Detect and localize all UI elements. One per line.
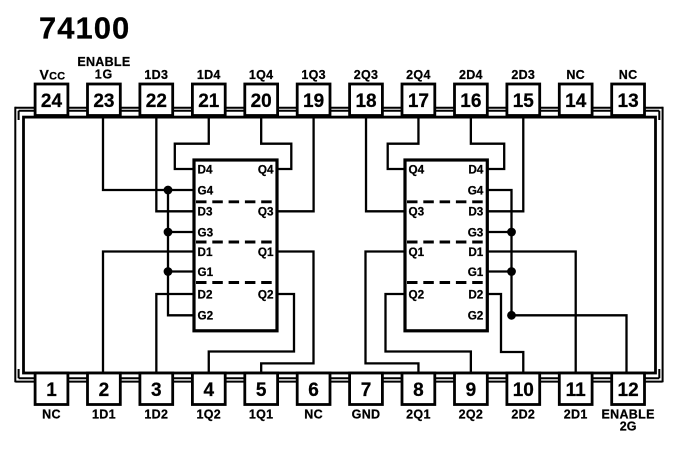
svg-text:1Q3: 1Q3 <box>301 68 326 82</box>
svg-text:D4: D4 <box>468 163 483 176</box>
svg-text:Q2: Q2 <box>258 288 274 301</box>
svg-text:G1: G1 <box>198 266 214 279</box>
svg-text:18: 18 <box>355 91 376 112</box>
svg-text:15: 15 <box>513 91 535 112</box>
svg-text:2Q1: 2Q1 <box>406 408 431 422</box>
svg-text:D4: D4 <box>198 163 213 176</box>
svg-text:Q3: Q3 <box>409 206 425 219</box>
svg-text:Q4: Q4 <box>409 163 425 176</box>
svg-text:D3: D3 <box>468 206 483 219</box>
svg-text:5: 5 <box>256 380 267 401</box>
svg-text:2Q3: 2Q3 <box>354 68 379 82</box>
svg-text:2D4: 2D4 <box>459 68 483 82</box>
svg-text:11: 11 <box>566 380 587 401</box>
svg-text:2D2: 2D2 <box>511 408 535 422</box>
svg-text:D1: D1 <box>468 246 483 259</box>
svg-text:Q1: Q1 <box>409 246 425 259</box>
svg-text:12: 12 <box>618 380 639 401</box>
svg-text:2Q4: 2Q4 <box>406 68 431 82</box>
svg-text:2D1: 2D1 <box>564 408 588 422</box>
svg-text:G1: G1 <box>468 266 484 279</box>
svg-text:2Q2: 2Q2 <box>459 408 484 422</box>
svg-text:G3: G3 <box>468 226 484 239</box>
svg-text:2: 2 <box>99 380 110 401</box>
svg-text:G2: G2 <box>468 310 484 323</box>
svg-text:17: 17 <box>408 91 429 112</box>
svg-text:Q3: Q3 <box>258 206 274 219</box>
svg-text:1Q2: 1Q2 <box>196 408 221 422</box>
svg-text:1G: 1G <box>95 68 113 82</box>
svg-text:2G: 2G <box>620 420 637 434</box>
svg-text:D2: D2 <box>198 288 213 301</box>
svg-text:16: 16 <box>460 91 481 112</box>
svg-text:7: 7 <box>361 380 372 401</box>
svg-text:G2: G2 <box>198 310 214 323</box>
svg-text:24: 24 <box>41 91 63 112</box>
svg-text:19: 19 <box>303 91 324 112</box>
svg-text:G4: G4 <box>198 184 214 197</box>
svg-text:G3: G3 <box>198 226 214 239</box>
svg-text:20: 20 <box>251 91 272 112</box>
svg-text:4: 4 <box>203 380 214 401</box>
svg-text:NC: NC <box>304 408 323 422</box>
svg-text:Q1: Q1 <box>258 246 274 259</box>
svg-text:21: 21 <box>198 91 220 112</box>
svg-text:9: 9 <box>466 380 477 401</box>
svg-text:22: 22 <box>146 91 167 112</box>
svg-text:NC: NC <box>566 68 585 82</box>
svg-text:6: 6 <box>308 380 319 401</box>
svg-text:D1: D1 <box>198 246 213 259</box>
svg-text:NC: NC <box>42 408 61 422</box>
svg-text:D2: D2 <box>468 288 483 301</box>
svg-text:1D2: 1D2 <box>144 408 168 422</box>
svg-text:2D3: 2D3 <box>511 68 535 82</box>
svg-text:10: 10 <box>513 380 534 401</box>
svg-text:23: 23 <box>93 91 114 112</box>
svg-text:74100: 74100 <box>39 11 130 46</box>
svg-text:3: 3 <box>151 380 162 401</box>
svg-text:1D3: 1D3 <box>144 68 168 82</box>
svg-text:Q2: Q2 <box>409 288 425 301</box>
svg-text:Q4: Q4 <box>258 163 274 176</box>
svg-text:1D1: 1D1 <box>92 408 116 422</box>
svg-text:G4: G4 <box>468 184 484 197</box>
svg-text:8: 8 <box>413 380 424 401</box>
svg-text:1Q1: 1Q1 <box>249 408 274 422</box>
svg-text:D3: D3 <box>198 206 213 219</box>
svg-text:NC: NC <box>619 68 638 82</box>
svg-text:14: 14 <box>565 91 587 112</box>
svg-text:1D4: 1D4 <box>197 68 221 82</box>
svg-text:1Q4: 1Q4 <box>249 68 274 82</box>
svg-text:13: 13 <box>618 91 639 112</box>
svg-text:1: 1 <box>46 380 57 401</box>
svg-text:GND: GND <box>352 408 381 422</box>
